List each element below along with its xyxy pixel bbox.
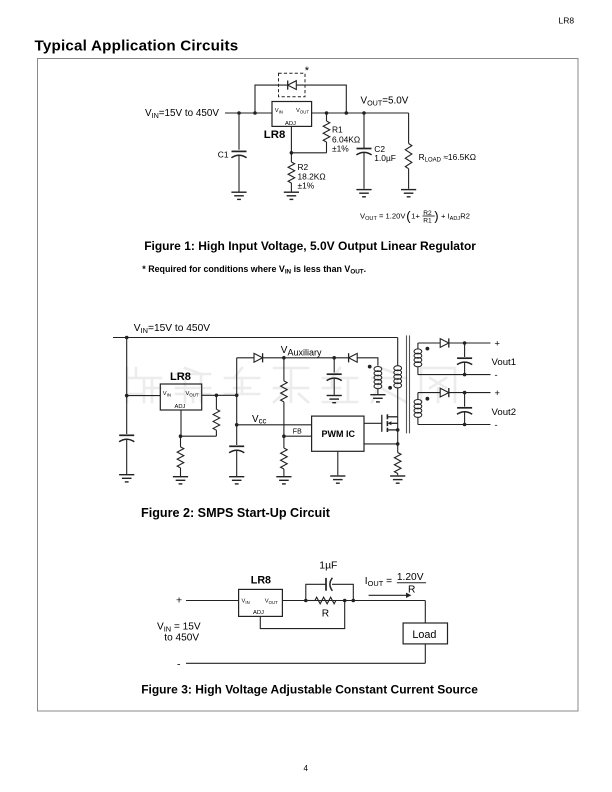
transformer core <box>407 335 410 433</box>
wire VAux divider top <box>283 358 285 381</box>
wire D2 to aux winding <box>357 358 378 366</box>
wire sense resistor bottom <box>397 474 399 476</box>
junction current sense <box>396 442 400 446</box>
junction out1 cap bottom <box>463 373 467 377</box>
wire R bottom lead <box>215 430 217 436</box>
transistor Q1 MOSFET <box>382 414 398 432</box>
svg-text:VIN: VIN <box>242 598 250 605</box>
regulator U4 LR8 body <box>239 589 283 616</box>
resistor R (current set) <box>315 597 336 604</box>
junction VAuxiliary node <box>282 356 286 360</box>
junction MOSFET source <box>396 428 400 432</box>
junction cap right <box>352 599 356 603</box>
capacitor C2 <box>356 149 371 155</box>
wire out1 cap bottom lead <box>464 362 466 375</box>
capacitor C1 <box>231 151 246 157</box>
svg-text:C1: C1 <box>218 149 229 159</box>
svg-text:to 450V: to 450V <box>164 633 199 644</box>
svg-text:R1: R1 <box>423 218 432 225</box>
wire to R <box>308 600 315 602</box>
wire RLOAD top <box>408 113 410 144</box>
protection diode D* (optional) <box>288 81 297 90</box>
svg-text:1.20V: 1.20V <box>397 572 424 583</box>
junction diode branch right <box>345 111 349 115</box>
wire sec1 to diode <box>418 342 440 344</box>
svg-text:Vcc: Vcc <box>252 414 266 426</box>
wire secondary1 bottom lead <box>417 367 419 374</box>
svg-text:LR8: LR8 <box>170 371 191 383</box>
svg-text:Vout2: Vout2 <box>492 407 517 418</box>
wire ADJ kelvin <box>260 601 344 629</box>
regulator U2 LR8 body <box>160 384 201 410</box>
svg-text:VOUT = 1.20V: VOUT = 1.20V <box>360 211 406 222</box>
svg-text:VIN: VIN <box>163 391 171 398</box>
svg-text:LR8: LR8 <box>559 16 575 26</box>
svg-text:R: R <box>322 609 329 620</box>
wire to diode D1 <box>237 357 254 359</box>
junction R left <box>304 599 308 603</box>
wire mid rail <box>236 358 238 445</box>
wire LR8 VOUT <box>202 394 237 396</box>
svg-text:±1%: ±1% <box>332 144 349 154</box>
wire top rail to primary <box>397 338 399 366</box>
ground under VAux cap <box>327 396 342 403</box>
wire R2 top lead <box>180 436 182 447</box>
wire sense to PWM IC <box>364 443 398 445</box>
wire C1 top <box>238 113 240 150</box>
ground under PWM IC <box>330 476 345 483</box>
wire aux cap bottom <box>333 378 335 395</box>
capacitor 1uF (horizontal) <box>326 578 332 591</box>
wire diode2 to output+ <box>449 392 491 394</box>
resistor ADJ-GND <box>177 447 184 468</box>
outer border frame <box>38 59 579 712</box>
wire D1 to VAux <box>263 357 349 359</box>
wire ADJ to R bottom <box>181 435 217 437</box>
svg-text:LR8: LR8 <box>251 574 271 586</box>
svg-text:Vout1: Vout1 <box>492 357 517 368</box>
junction out2 cap top <box>463 391 467 395</box>
ground under sense resistor <box>390 476 405 483</box>
svg-text:+: + <box>176 595 182 607</box>
wire PWM IC ground lead <box>337 451 339 475</box>
regulator U1 LR8 body <box>272 102 312 127</box>
ground under ADJ resistor <box>173 477 188 484</box>
ground under C1 <box>231 192 246 199</box>
svg-text:1.0µF: 1.0µF <box>374 153 396 163</box>
wire divider mid (crosses Vcc) <box>283 402 285 436</box>
wire C2 top <box>363 113 365 148</box>
svg-text:VOUT: VOUT <box>296 108 309 115</box>
svg-text:Figure 2: SMPS Start-Up Circui: Figure 2: SMPS Start-Up Circuit <box>141 506 331 520</box>
ground under divider <box>276 477 291 484</box>
svg-text:R: R <box>408 585 415 596</box>
junction out1 cap top <box>463 341 467 345</box>
wire R2 top <box>290 153 292 162</box>
svg-text:4: 4 <box>304 764 309 773</box>
phase dot auxiliary <box>368 365 372 369</box>
capacitor VAux filter <box>327 374 342 380</box>
svg-text:VIN: VIN <box>275 108 283 115</box>
junction R top <box>215 394 219 398</box>
resistor VOUT-ADJ <box>213 409 220 430</box>
svg-text:VAuxiliary: VAuxiliary <box>281 345 322 358</box>
transformer secondary winding 1 <box>414 349 422 367</box>
svg-text:Figure 1: High Input Voltage,: Figure 1: High Input Voltage, 5.0V Outpu… <box>144 239 476 253</box>
junction FB node <box>282 434 286 438</box>
svg-text:-: - <box>177 659 181 671</box>
svg-text:VOUT: VOUT <box>186 391 199 398</box>
wire output <box>282 600 425 602</box>
wire secondary1 top lead <box>417 343 419 350</box>
wire VIN rail top <box>113 337 398 339</box>
resistor current sense <box>394 453 401 474</box>
junction VOUT-rail <box>235 394 239 398</box>
wire FB line <box>284 435 312 437</box>
svg-text:Typical Application Circuits: Typical Application Circuits <box>35 38 239 55</box>
junction VOUT node <box>362 111 366 115</box>
wire secondary2 bottom lead <box>417 417 419 425</box>
junction C1 <box>237 111 241 115</box>
wire lower divider bottom <box>283 469 285 476</box>
junction diode branch left <box>253 111 257 115</box>
PWM controller U3 body <box>312 416 364 451</box>
transformer T1 primary winding <box>394 366 402 388</box>
wire C2 bottom <box>363 152 365 189</box>
diode output rectifier 1 <box>440 338 449 347</box>
ground under R2 <box>284 192 299 199</box>
ground under RLOAD <box>401 190 416 197</box>
wire sec2 return <box>418 424 491 426</box>
svg-text:PWM IC: PWM IC <box>322 429 356 439</box>
wire R2 bottom <box>290 183 292 192</box>
svg-text:1µF: 1µF <box>319 561 337 572</box>
wire ADJ down <box>180 410 182 436</box>
junction ADJ node <box>179 434 183 438</box>
wire from protection diode to output <box>296 85 346 113</box>
wire Vcc line <box>237 424 312 426</box>
wire to protection diode anode side <box>255 85 288 113</box>
wire R1 top <box>326 113 328 121</box>
svg-text:): ) <box>434 208 438 223</box>
wire sec2 to diode <box>418 392 440 394</box>
junction out2 cap bottom <box>463 423 467 427</box>
svg-text:R2: R2 <box>298 162 309 172</box>
wire + input <box>186 600 239 602</box>
diode D2 (auxiliary rectifier) <box>349 353 358 362</box>
svg-text:±1%: ±1% <box>298 181 315 191</box>
phase dot primary <box>388 386 392 390</box>
formula VOUT equation <box>360 208 470 224</box>
phase dot secondary 2 <box>426 397 430 401</box>
wire left rail <box>126 338 128 435</box>
auxiliary winding <box>374 367 382 389</box>
svg-text:VOUT=5.0V: VOUT=5.0V <box>361 95 409 107</box>
ground under C2 <box>356 190 371 197</box>
phase dot secondary 1 <box>426 347 430 351</box>
svg-text:LR8: LR8 <box>264 129 286 141</box>
wire R2 bottom lead <box>180 468 182 476</box>
svg-text:Load: Load <box>412 629 436 641</box>
diode output rectifier 2 <box>440 388 449 397</box>
svg-text:ADJ: ADJ <box>285 121 296 127</box>
wire input cap bottom <box>126 439 128 474</box>
wire out1 cap top lead <box>464 343 466 357</box>
capacitor input bypass <box>119 435 134 441</box>
capacitor output filter 1 <box>457 358 472 364</box>
resistor FB lower divider <box>281 448 288 469</box>
wire output VOUT <box>312 112 409 114</box>
resistor RLOAD <box>405 144 412 169</box>
svg-text:+: + <box>495 339 500 349</box>
wire secondary2 top lead <box>417 393 419 400</box>
junction Vcc tap <box>235 423 239 427</box>
svg-text:+ IADJR2: + IADJR2 <box>441 211 470 222</box>
svg-text:FB: FB <box>293 429 302 436</box>
junction top-left <box>125 336 129 340</box>
ground under input cap <box>119 475 134 482</box>
wire aux cap top <box>333 358 335 373</box>
svg-text:-: - <box>495 420 498 430</box>
wire Vcc cap bottom <box>236 450 238 476</box>
svg-text:R1: R1 <box>332 125 343 135</box>
svg-text:VIN=15V to 450V: VIN=15V to 450V <box>145 108 219 120</box>
svg-text:RLOAD ≈16.5KΩ: RLOAD ≈16.5KΩ <box>419 152 476 164</box>
wire - return <box>186 662 425 664</box>
svg-text:ADJ: ADJ <box>175 404 186 410</box>
resistor R1 <box>323 121 330 142</box>
capacitor output filter 2 <box>457 408 472 414</box>
wire R1 bottom <box>326 142 328 153</box>
formula IOUT <box>365 572 426 596</box>
wire C1 bottom <box>238 155 240 192</box>
svg-text:Figure 3: High Voltage Adjusta: Figure 3: High Voltage Adjustable Consta… <box>141 683 478 697</box>
junction LR8 VIN tap <box>125 394 129 398</box>
ground under aux winding <box>370 395 385 402</box>
wire aux winding bottom <box>377 389 379 394</box>
svg-text:* Required for conditions wher: * Required for conditions where VIN is l… <box>142 264 366 276</box>
watermark (faint CJK-style pseudo glyphs) <box>127 368 455 402</box>
wire primary/drain/source rail <box>397 388 399 453</box>
wire diode1 to output+ <box>449 342 491 344</box>
wire FB to lower divider <box>283 436 285 448</box>
ground under Vcc cap <box>229 477 244 484</box>
svg-text:1+: 1+ <box>411 211 420 220</box>
wire out2 cap bottom lead <box>464 411 466 424</box>
resistor VAux upper divider <box>281 381 288 402</box>
wire to load top <box>424 601 426 624</box>
junction ADJ node <box>290 151 294 155</box>
svg-text:*: * <box>305 65 310 77</box>
wire cap branch right <box>332 584 353 600</box>
wire out2 cap top lead <box>464 393 466 407</box>
svg-text:-: - <box>495 370 498 380</box>
load box <box>403 623 447 644</box>
junction R1 top <box>325 111 329 115</box>
wire to LR8 VIN <box>127 395 161 397</box>
wire RLOAD bottom <box>408 169 410 189</box>
transformer secondary winding 2 <box>414 400 422 418</box>
wire ADJ node <box>291 126 326 152</box>
svg-text:ADJ: ADJ <box>253 610 264 616</box>
wire input VIN <box>225 112 272 114</box>
wire R top lead <box>215 395 217 409</box>
svg-text:IOUT =: IOUT = <box>365 576 392 588</box>
diode D1 (startup) <box>254 353 263 362</box>
wire cap branch left <box>306 584 326 600</box>
optional protection diode dashed box <box>279 73 306 97</box>
svg-text:VOUT: VOUT <box>265 598 278 605</box>
svg-text:VIN=15V to 450V: VIN=15V to 450V <box>134 323 210 335</box>
annotation current arrow <box>369 593 412 598</box>
wire gate drive <box>364 422 382 424</box>
svg-text:+: + <box>495 388 500 398</box>
wire sec1 return <box>418 374 491 376</box>
junction ADJ sense <box>343 599 347 603</box>
junction aux cap <box>332 356 336 360</box>
resistor R2 <box>288 162 295 183</box>
capacitor Vcc <box>229 446 244 452</box>
wire load bottom <box>424 644 426 663</box>
